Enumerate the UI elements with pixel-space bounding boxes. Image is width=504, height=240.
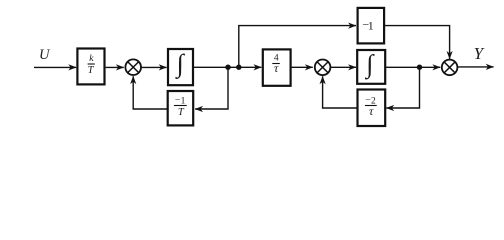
svg-text:1: 1	[368, 18, 374, 32]
feedback gain block G4 value -1/T	[168, 91, 194, 125]
junction dot J3	[417, 65, 422, 70]
summing junction S3	[442, 60, 458, 76]
gain block G1 value k/T	[77, 49, 104, 85]
wire I2 to summing junction S3 with junction dot	[385, 66, 440, 68]
svg-text:T: T	[178, 107, 185, 118]
junction dot J1	[225, 65, 230, 70]
svg-text:k: k	[89, 54, 94, 64]
wire input U to block G1	[34, 66, 76, 68]
svg-text:T: T	[88, 65, 95, 76]
feedback gain block G5 value -2/tau	[358, 90, 386, 127]
svg-text:−: −	[175, 96, 180, 106]
svg-text:τ: τ	[274, 61, 279, 75]
wire S1 to integrator I1	[141, 66, 167, 68]
summing junction S1	[125, 59, 141, 75]
junction dot J2	[236, 65, 241, 70]
wire G1 to summing junction S1	[106, 66, 124, 68]
svg-text:∫: ∫	[364, 49, 375, 79]
svg-text:∫: ∫	[175, 49, 186, 79]
integrator block I1	[168, 49, 193, 85]
wire feedback J3 down and left into block G5	[386, 67, 419, 108]
svg-text:τ: τ	[369, 104, 374, 118]
wire I1 to gain block G2 with junction dots	[193, 66, 261, 68]
summing junction S2	[315, 60, 331, 76]
svg-text:1: 1	[181, 96, 186, 106]
wire G5 left and up into S2 bottom	[323, 76, 358, 108]
wire G4 left and up into S1 bottom	[133, 76, 168, 109]
svg-text:Y: Y	[474, 44, 485, 63]
wire feedback J1 down and left into block G4	[195, 67, 228, 109]
gain block G2 value 4/tau	[263, 49, 291, 85]
svg-text:U: U	[39, 47, 51, 63]
wire S2 to integrator I2	[330, 66, 356, 68]
gain block G3 value -1	[358, 8, 385, 44]
wire G3 right and down into S3 top	[384, 26, 450, 59]
wire G2 to summing junction S2	[291, 66, 313, 68]
integrator block I2	[357, 49, 385, 84]
wire top branch J2 up and right to gain block G3	[239, 26, 356, 68]
wire S3 to output Y	[457, 66, 493, 68]
